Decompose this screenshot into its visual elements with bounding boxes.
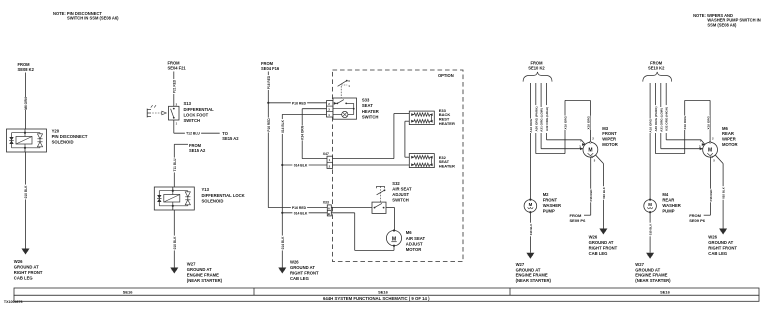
svg-text:SE16: SE16: [123, 290, 134, 295]
solenoid Y13 differential lock: [154, 187, 194, 210]
svg-text:WIPER: WIPER: [602, 137, 616, 142]
svg-text:A31 ORG (LOW): A31 ORG (LOW): [540, 108, 544, 132]
wire 014 BLK rail from S33 pin 1 to ground: [280, 114, 326, 267]
svg-text:SEAT: SEAT: [362, 103, 373, 108]
svg-text:S13: S13: [184, 101, 192, 106]
wire from E33 to E32 (series): [405, 121, 412, 157]
switch S13 differential lock foot switch: [169, 103, 180, 126]
svg-text:P16 RED: P16 RED: [709, 189, 713, 201]
svg-text:OPTION: OPTION: [438, 73, 454, 78]
wire A30 ORG (PARK): [534, 83, 565, 154]
node TO SE15 A2: [222, 131, 239, 141]
ground W26 symbol: [22, 249, 30, 255]
wire P21 RED to S13: [172, 72, 177, 107]
svg-text:TX1004676: TX1004676: [4, 300, 23, 304]
svg-text:Y20: Y20: [52, 128, 60, 133]
svg-text:010 BLK: 010 BLK: [649, 223, 653, 235]
svg-text:SWITCH IN SSM (SE08 A6): SWITCH IN SSM (SE08 A6): [67, 16, 119, 21]
label S13: [184, 101, 215, 123]
svg-text:RIGHT FRONT: RIGHT FRONT: [290, 271, 319, 276]
svg-text:M6 GRN: M6 GRN: [24, 97, 28, 110]
svg-text:K34 ORN: K34 ORN: [301, 125, 305, 140]
switch S32 air seat adjust switch: [372, 202, 386, 213]
wire 016 ORG to M2 front washer pump: [528, 83, 533, 200]
label ground W27 (washer): [635, 262, 671, 283]
svg-text:014 BLK: 014 BLK: [281, 236, 285, 249]
heater E32 seat heater: [409, 154, 434, 168]
svg-text:P16 RED: P16 RED: [292, 101, 307, 105]
wire 010 BLK from M3 front wiper motor to ground W26: [596, 155, 606, 228]
svg-text:SE16: SE16: [378, 290, 389, 295]
svg-text:MOTOR: MOTOR: [722, 142, 738, 147]
svg-text:MOTOR: MOTOR: [406, 247, 422, 252]
motor M6 air seat adjust motor: [386, 229, 401, 246]
svg-text:ENGINE FRAME: ENGINE FRAME: [635, 273, 667, 278]
label ground W26: [14, 259, 43, 281]
label ground W27 (washer): [516, 262, 552, 283]
svg-text:X16 ORG: X16 ORG: [706, 115, 710, 129]
ground W27 symbol (washer): [526, 253, 534, 259]
svg-text:M: M: [648, 202, 652, 207]
node FROM SE10 K2 (M6 rear wiper motor feed): [648, 61, 665, 71]
svg-text:GROUND AT: GROUND AT: [187, 267, 212, 272]
svg-text:T11 BLU: T11 BLU: [173, 158, 177, 171]
svg-text:REAR: REAR: [662, 197, 674, 202]
svg-text:SE04 F21: SE04 F21: [168, 65, 187, 70]
svg-text:DIFFERENTIAL: DIFFERENTIAL: [184, 107, 215, 112]
svg-text:W26: W26: [290, 259, 299, 264]
label S33: [362, 98, 379, 120]
svg-text:CAB LEG: CAB LEG: [290, 276, 309, 281]
svg-text:P16 RED: P16 RED: [267, 75, 271, 89]
wire from X47 pin 1 to E33: [333, 114, 410, 159]
svg-text:M2: M2: [543, 192, 549, 197]
svg-text:W26: W26: [589, 235, 598, 240]
wire P16 RED to X33 pin A: [268, 205, 327, 210]
svg-text:WASHER: WASHER: [543, 203, 561, 208]
svg-text:W27: W27: [635, 262, 644, 267]
svg-text:RIGHT FRONT: RIGHT FRONT: [589, 245, 618, 250]
svg-text:P21 RED: P21 RED: [172, 79, 176, 93]
motor M3 front wiper motor: [579, 137, 598, 163]
actuator rocker symbol for S33: [338, 79, 351, 98]
heater E33 back rest heater: [409, 111, 434, 125]
wire X16 ORG jumper to motor top: [563, 100, 591, 153]
svg-text:GROUND AT: GROUND AT: [14, 265, 39, 270]
wire X33 B to motor M6 (return loop): [331, 213, 394, 251]
brace over harness wires to M3 front wiper motor: [523, 72, 552, 82]
svg-text:SE09 P6: SE09 P6: [570, 218, 587, 223]
label ground W27: [187, 261, 223, 283]
wire M6 GRN to Y20: [23, 73, 28, 130]
svg-text:PIN DISCONNECT: PIN DISCONNECT: [52, 134, 88, 139]
svg-text:A32 ORG (HIGH): A32 ORG (HIGH): [665, 107, 669, 131]
motor M4 rear washer pump: [644, 199, 657, 214]
wire X33 A to S32: [331, 207, 372, 209]
svg-text:A16 ORG: A16 ORG: [649, 118, 653, 132]
ground W27 symbol: [170, 268, 178, 274]
svg-text:A30 ORG (PARK): A30 ORG (PARK): [654, 107, 658, 132]
wire P16 RED rail: [266, 72, 271, 208]
label E33: [439, 108, 455, 126]
label M3 front wiper motor: [602, 126, 618, 147]
brace over harness wires to M6 rear wiper motor: [643, 72, 672, 82]
svg-text:(NEAR STARTER): (NEAR STARTER): [635, 278, 671, 283]
svg-text:WASHER: WASHER: [662, 203, 680, 208]
svg-text:SE10 K2: SE10 K2: [528, 65, 545, 70]
svg-text:B: B: [328, 212, 330, 216]
wire T11 BLU to Y13: [172, 144, 188, 187]
motor M2 front washer pump: [524, 199, 537, 214]
svg-text:FRONT: FRONT: [543, 197, 558, 202]
node FROM SE04 F21: [168, 60, 187, 70]
wire K34 ORN from S33 pin 3 to X47 pin 1: [300, 109, 327, 159]
svg-text:WIPER: WIPER: [722, 137, 736, 142]
motor M6 rear wiper motor: [699, 137, 717, 163]
svg-text:W26: W26: [708, 235, 717, 240]
connector X33: [323, 200, 332, 216]
ground W27 symbol (washer): [646, 253, 654, 259]
svg-text:ADJUST: ADJUST: [406, 241, 423, 246]
svg-text:ENGINE FRAME: ENGINE FRAME: [187, 273, 219, 278]
svg-text:GROUND AT: GROUND AT: [635, 267, 660, 272]
wire A30 ORG (PARK): [653, 83, 684, 154]
svg-text:X16 ORG: X16 ORG: [587, 115, 591, 129]
label ground W26 middle: [290, 259, 319, 281]
svg-text:SWITCH: SWITCH: [392, 197, 409, 202]
svg-text:ADJUST: ADJUST: [392, 192, 409, 197]
title bar 644H system functional schematic: [14, 295, 759, 301]
svg-text:W27: W27: [187, 261, 196, 266]
wire A32 ORG (HIGH): [544, 83, 585, 146]
label M4 rear washer pump: [662, 192, 680, 213]
ground W26 (cab) symbol: [278, 268, 286, 274]
wire T12 BLU from S13 to SE15: [174, 120, 220, 136]
svg-text:M3: M3: [602, 126, 608, 131]
node FROM SE09 P6: [570, 213, 587, 223]
wire P16 RED from SE09 P6 to M3 front wiper motor: [584, 158, 593, 216]
wire 014 BLK through X47 pin 2 to E32: [282, 163, 409, 168]
svg-text:CAB LEG: CAB LEG: [708, 251, 727, 256]
svg-text:SOLENOID: SOLENOID: [52, 140, 74, 145]
wire P16 RED from SE09 P6 to M6 rear wiper motor: [704, 158, 713, 216]
svg-text:010 BLK: 010 BLK: [602, 186, 606, 198]
svg-text:LOCK FOOT: LOCK FOOT: [184, 112, 209, 117]
svg-text:GROUND AT: GROUND AT: [589, 240, 614, 245]
svg-text:010 BLK: 010 BLK: [529, 223, 533, 235]
wire 014 BLK to X33 pin B: [282, 211, 327, 216]
svg-text:SE16: SE16: [660, 290, 671, 295]
svg-text:A30 ORG (PARK): A30 ORG (PARK): [534, 107, 538, 132]
svg-text:SSM (SE08 A6): SSM (SE08 A6): [707, 22, 737, 27]
svg-text:P16 RED: P16 RED: [589, 189, 593, 201]
svg-text:A31 ORG (LOW): A31 ORG (LOW): [659, 108, 663, 132]
solenoid Y20 pin disconnect: [7, 129, 47, 152]
svg-text:SE15 A2: SE15 A2: [189, 148, 206, 153]
svg-text:M: M: [529, 202, 533, 207]
svg-text:644H SYSTEM FUNCTIONAL SCHEMAT: 644H SYSTEM FUNCTIONAL SCHEMATIC ( 9 OF …: [323, 296, 430, 301]
svg-text:SWITCH: SWITCH: [184, 118, 201, 123]
svg-text:010 BLK: 010 BLK: [173, 236, 177, 249]
node FROM SE08 K2: [18, 62, 35, 72]
svg-text:PUMP: PUMP: [662, 208, 674, 213]
svg-text:W26: W26: [14, 259, 23, 264]
node FROM SE04 F16: [261, 61, 280, 71]
label OPTION: [438, 73, 454, 78]
wire 016 ORG to M4 rear washer pump: [648, 83, 653, 200]
label ground W26 (wiper): [708, 235, 737, 256]
section reference bar SE16: [14, 288, 759, 295]
svg-text:SOLENOID: SOLENOID: [202, 198, 224, 203]
svg-text:014 BLK: 014 BLK: [294, 211, 308, 215]
svg-text:SE04 F16: SE04 F16: [261, 66, 280, 71]
svg-text:PUMP: PUMP: [543, 208, 555, 213]
label Y13: [202, 187, 245, 203]
wire 010 BLK from M2 front washer pump to ground W27: [528, 212, 533, 253]
wire 010 BLK from Y20 to ground: [23, 152, 28, 249]
wire 010 BLK from M6 rear wiper motor to ground W26: [715, 155, 725, 228]
svg-text:HEATER: HEATER: [439, 121, 455, 126]
svg-text:P16 RED: P16 RED: [267, 118, 271, 132]
svg-text:X16 ORG: X16 ORG: [563, 115, 567, 129]
svg-text:W27: W27: [516, 262, 525, 267]
svg-text:ENGINE FRAME: ENGINE FRAME: [516, 273, 548, 278]
svg-text:014 BLK: 014 BLK: [294, 164, 308, 168]
svg-text:X33: X33: [323, 200, 329, 204]
label E32: [439, 155, 455, 169]
wire A31 ORG (LOW): [659, 83, 703, 150]
switch S33 seat heater switch: [327, 98, 357, 119]
svg-text:CAB LEG: CAB LEG: [14, 276, 33, 281]
svg-text:014 BLK: 014 BLK: [281, 119, 285, 132]
note: wipers and washer pump switch location: [693, 13, 761, 27]
ground W26 symbol (wiper): [599, 229, 607, 235]
node FROM SE15 A2: [189, 143, 206, 153]
wire 010 BLK from M4 rear washer pump to ground W27: [648, 212, 653, 253]
label S32: [392, 181, 412, 202]
svg-text:AIR SEAT: AIR SEAT: [392, 187, 412, 192]
wire X16 ORG jumper to motor top: [683, 100, 711, 153]
actuator pushbutton symbol for S32: [376, 186, 385, 202]
svg-text:(NEAR STARTER): (NEAR STARTER): [187, 278, 223, 283]
label ground W26 (wiper): [589, 235, 618, 256]
svg-text:HEATER: HEATER: [439, 164, 455, 169]
wire A31 ORG (LOW): [539, 83, 583, 150]
svg-text:X47: X47: [323, 152, 329, 156]
svg-text:GROUND AT: GROUND AT: [290, 265, 315, 270]
svg-text:CAB LEG: CAB LEG: [589, 251, 608, 256]
label M2 front washer pump: [543, 192, 561, 213]
actuator pedal symbol for S13: [147, 105, 166, 117]
svg-text:Y13: Y13: [202, 187, 210, 192]
svg-text:M6: M6: [406, 230, 412, 235]
svg-text:X16 ORG: X16 ORG: [683, 115, 687, 129]
svg-text:DIFFERENTIAL LOCK: DIFFERENTIAL LOCK: [202, 193, 245, 198]
svg-text:RIGHT FRONT: RIGHT FRONT: [708, 245, 737, 250]
svg-text:M4: M4: [662, 192, 668, 197]
drawing number TX1004676: [4, 300, 23, 304]
svg-text:RIGHT FRONT: RIGHT FRONT: [14, 270, 43, 275]
svg-text:SE08 K2: SE08 K2: [18, 67, 35, 72]
label Y20: [52, 128, 88, 144]
svg-text:GROUND AT: GROUND AT: [516, 267, 541, 272]
svg-text:P16 RED: P16 RED: [292, 206, 307, 210]
svg-text:S32: S32: [392, 181, 400, 186]
label M6: [406, 230, 426, 252]
svg-text:T12 BLU: T12 BLU: [186, 132, 200, 136]
svg-text:AIR SEAT: AIR SEAT: [406, 236, 426, 241]
svg-text:M6: M6: [722, 126, 728, 131]
svg-text:M: M: [708, 147, 712, 153]
svg-text:REAR: REAR: [722, 131, 734, 136]
ground W26 symbol (wiper): [719, 229, 727, 235]
svg-text:FRONT: FRONT: [602, 131, 617, 136]
svg-text:010 BLK: 010 BLK: [24, 185, 28, 198]
svg-text:SE15 A2: SE15 A2: [222, 136, 239, 141]
svg-text:HEATER: HEATER: [362, 109, 379, 114]
node FROM SE10 K2 (M3 front wiper motor feed): [528, 61, 545, 71]
svg-text:(NEAR STARTER): (NEAR STARTER): [516, 278, 552, 283]
svg-text:GROUND AT: GROUND AT: [708, 240, 733, 245]
junction on P16 RED rail: [267, 102, 269, 104]
label M6 rear wiper motor: [722, 126, 738, 147]
note: pin disconnect switch location: [53, 11, 119, 21]
svg-text:SE10 K2: SE10 K2: [648, 65, 665, 70]
svg-text:M: M: [588, 147, 592, 153]
wire P16 RED to S33 pin 2: [268, 101, 326, 106]
svg-text:A32 ORG (HIGH): A32 ORG (HIGH): [545, 107, 549, 131]
svg-text:SWITCH: SWITCH: [362, 114, 379, 119]
dashed OPTION box: [333, 70, 464, 262]
svg-text:S33: S33: [362, 98, 370, 103]
svg-text:010 BLK: 010 BLK: [722, 186, 726, 198]
svg-text:SE09 P6: SE09 P6: [689, 218, 706, 223]
connector X47: [323, 152, 333, 168]
wire S32 to motor M6: [386, 208, 395, 231]
wire 010 BLK from Y13 to ground: [172, 210, 177, 268]
node FROM SE09 P6: [689, 213, 706, 223]
svg-text:A16 ORG: A16 ORG: [529, 118, 533, 132]
svg-text:MOTOR: MOTOR: [602, 142, 618, 147]
wire A32 ORG (HIGH): [664, 83, 705, 146]
